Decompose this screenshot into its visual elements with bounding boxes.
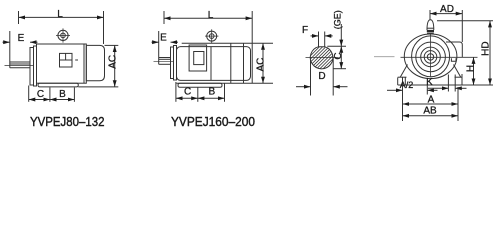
foot pad (178, 83, 222, 87)
svg-text:L: L (57, 9, 63, 20)
svg-text:YVPEJ160–200: YVPEJ160–200 (171, 114, 255, 129)
dim E right arrow (30, 41, 38, 43)
svg-text:AD: AD (440, 4, 454, 15)
dim F left extension (318, 32, 320, 47)
svg-text:B: B (59, 89, 66, 100)
dim AC line (114, 45, 116, 86)
eyebolt inner (209, 34, 214, 39)
svg-text:A/2: A/2 (400, 80, 414, 90)
fan cover (86, 45, 104, 80)
dim C-B middle extension (197, 88, 199, 102)
terminal box outer (189, 45, 207, 71)
dim AC top extension (252, 42, 273, 44)
dim E right arrow (171, 41, 179, 43)
motor frame rounded body (177, 47, 251, 81)
dim A line (403, 103, 459, 105)
frame ring (412, 36, 450, 77)
dim F left arrow (311, 35, 319, 37)
dim AD line (430, 13, 462, 15)
terminal box inner (194, 52, 204, 65)
dim AC top extension (105, 44, 119, 46)
dim HD top extension (437, 20, 493, 22)
dim A/2 left arrow (387, 89, 403, 91)
svg-text:AB: AB (423, 106, 437, 117)
dim A/2 right arrow (427, 89, 437, 91)
dim C line (340, 46, 342, 68)
left foot outer edge (397, 78, 399, 86)
dim E extension line (9, 31, 11, 62)
motor frame body (37, 44, 87, 83)
right foot slot line left (447, 75, 449, 92)
dim B right extension (73, 88, 75, 102)
dim F right arrow (325, 35, 333, 37)
shaft centerline (5, 65, 34, 67)
dim L line with arrows (19, 16, 104, 18)
shaft circle (427, 54, 433, 60)
dim L line (164, 17, 252, 19)
svg-text:C: C (333, 52, 344, 59)
right cover edge (251, 43, 253, 83)
left foot top line (398, 76, 407, 78)
dim AD left extension (429, 10, 431, 20)
dim L extension line left (18, 11, 20, 24)
eyebolt dome (427, 20, 434, 30)
shaft section circle with key flat (310, 47, 333, 69)
dim HD line (489, 21, 491, 85)
chord extension line (327, 45, 346, 47)
dim L extension line left (163, 11, 165, 24)
bearing plate (171, 47, 174, 79)
dim AB line (403, 115, 459, 117)
bearing circle (424, 51, 437, 64)
outer frame shell (404, 34, 457, 79)
bearing ring (34, 46, 37, 86)
dim E extension line (158, 31, 160, 58)
fan cover second separator (243, 43, 245, 83)
svg-text:E: E (18, 33, 25, 44)
eyebolt band (427, 30, 434, 32)
svg-text:E: E (160, 33, 167, 44)
top cover line (182, 42, 253, 44)
frame separator line (83, 44, 85, 83)
centerline lower extension (426, 85, 428, 95)
inner ring (416, 42, 446, 72)
eyebolt cross horizontal (56, 34, 70, 36)
ground line (398, 84, 462, 86)
svg-text:YVPEJ80–132: YVPEJ80–132 (30, 114, 105, 129)
right gusset (454, 65, 461, 78)
dim C line (176, 97, 198, 99)
eyebolt inner (61, 33, 66, 38)
bottom extension line (333, 68, 346, 70)
terminal box (60, 53, 73, 67)
shaft (10, 61, 30, 63)
eyebolt cross vertical (211, 29, 213, 43)
center vertical line (429, 34, 431, 78)
boss circle (421, 47, 441, 67)
dim GE pointer (340, 24, 342, 46)
frame separator line (210, 47, 212, 81)
right foot outer edge (461, 74, 463, 85)
dim B line (198, 97, 225, 99)
dim C line (29, 99, 50, 101)
dim D left arrow (296, 86, 311, 88)
dim C left extension (175, 82, 177, 102)
left foot inner line (404, 78, 406, 86)
dim A left extension (402, 85, 404, 121)
dim F right extension (324, 32, 326, 47)
terminal box mid line (60, 59, 73, 61)
dim K left arrow (428, 87, 449, 89)
svg-text:K: K (426, 77, 433, 88)
svg-text:AC: AC (107, 55, 118, 69)
dim C-B middle extension (49, 88, 51, 102)
left gusset (400, 65, 407, 78)
shaft centerline (154, 60, 175, 62)
dim D right arrow (333, 86, 347, 88)
bearing plate (30, 48, 34, 86)
dim L extension line right (251, 11, 253, 43)
terminal box divider (65, 53, 67, 60)
right foot top line (455, 76, 463, 78)
terminal box step (451, 58, 456, 61)
svg-text:C: C (184, 87, 191, 98)
dim B right extension (224, 84, 226, 102)
shaft (159, 57, 171, 59)
svg-text:C: C (37, 89, 44, 100)
dim E left arrow (3, 41, 10, 43)
bottom line with AC extension (177, 82, 274, 84)
hatching (288, 25, 399, 75)
svg-text:A: A (428, 95, 435, 106)
eyebolt ring (58, 30, 68, 40)
dim H line (473, 57, 475, 85)
dim K right arrow (455, 87, 466, 89)
center horizontal line (401, 56, 478, 58)
svg-text:D: D (318, 71, 325, 82)
dim L extension line right (103, 11, 105, 44)
section centerline (306, 56, 339, 58)
dim AC line (262, 43, 264, 83)
right foot slot line right (454, 75, 456, 92)
svg-text:AC: AC (256, 58, 267, 72)
bearing ring (174, 46, 177, 81)
eyebolt cross horizontal (205, 35, 218, 37)
svg-text:HD: HD (481, 41, 492, 55)
dim B line (50, 99, 75, 101)
eyebolt ring (207, 31, 217, 41)
bottom ground extension line (78, 86, 118, 88)
svg-text:L: L (208, 10, 214, 21)
terminal box right (446, 42, 462, 57)
side tick (75, 59, 78, 61)
dim D left extension (310, 58, 312, 96)
svg-text:B: B (208, 87, 215, 98)
svg-text:F: F (302, 25, 308, 36)
dim D right extension (332, 58, 334, 96)
fan cover separator line (230, 43, 232, 83)
foot pad (38, 83, 78, 87)
dim HD bottom extension (462, 84, 493, 86)
left foot slot line (402, 78, 404, 86)
dim C left extension (28, 86, 30, 102)
eyebolt cross vertical (62, 28, 64, 42)
dim AD right extension (461, 10, 463, 42)
dim E left arrow (152, 41, 159, 43)
centerline segment between figures (374, 56, 395, 58)
svg-text:H: H (465, 65, 476, 72)
dim A right extension (457, 87, 459, 121)
